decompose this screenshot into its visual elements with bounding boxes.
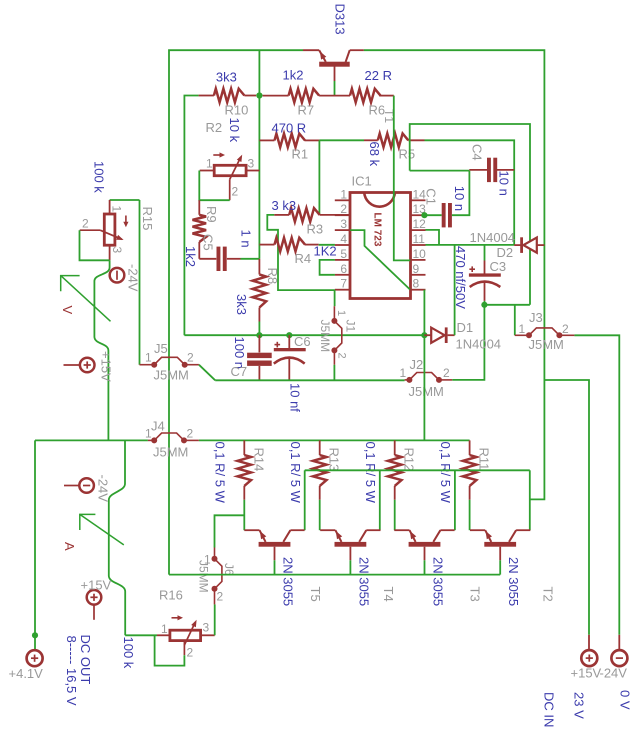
svg-text:J5: J5 (154, 341, 168, 356)
resistor R14 0,1R 5W (243, 440, 245, 455)
svg-text:7: 7 (340, 277, 347, 291)
jumper J4 J5MM (148, 439, 154, 441)
resistor R12 0,1R 5W (394, 440, 396, 455)
svg-text:2: 2 (82, 217, 89, 231)
wire base rail (169, 574, 500, 576)
svg-text:+15V: +15V (99, 351, 114, 382)
wire base T3 (424, 560, 426, 574)
svg-text:A: A (62, 542, 77, 551)
svg-text:23 V: 23 V (572, 692, 587, 719)
resistor R8 3k3 (258, 259, 260, 275)
svg-text:R9: R9 (204, 206, 219, 223)
supply -24V (voltmeter) (110, 268, 125, 283)
svg-text:2: 2 (187, 646, 194, 660)
svg-text:470 R: 470 R (272, 121, 307, 136)
svg-text:0,1 R/ 5 W: 0,1 R/ 5 W (438, 442, 453, 504)
svg-text:R2: R2 (206, 120, 223, 135)
wire J5 pin2 diagonal (199, 365, 215, 381)
svg-text:1k2: 1k2 (283, 68, 304, 83)
svg-text:22 R: 22 R (365, 68, 392, 83)
transistor T3 2N3055 (394, 529, 409, 531)
svg-text:10 nf: 10 nf (288, 383, 303, 412)
svg-text:R5: R5 (399, 147, 416, 162)
wire pin7 to J1 (334, 290, 336, 306)
svg-text:3: 3 (203, 621, 210, 635)
svg-text:T2: T2 (541, 587, 556, 602)
wire pin 11 to D2 (426, 244, 515, 246)
svg-text:2N 3055: 2N 3055 (431, 557, 446, 606)
capacitor C7 100 n (258, 335, 260, 352)
svg-text:T5: T5 (308, 587, 323, 602)
wire collector drop (454, 470, 456, 530)
svg-text:T4: T4 (381, 587, 396, 602)
pin 4 IC1 (335, 244, 350, 246)
svg-text:1: 1 (145, 427, 152, 441)
wire R15 top (110, 199, 140, 201)
pin 7 IC1 (335, 289, 350, 291)
svg-text:-24V: -24V (126, 264, 141, 292)
wire R16 pin2 loop (155, 635, 185, 665)
junction dot pin 13 (421, 212, 427, 218)
svg-text:J5MM: J5MM (318, 320, 332, 353)
svg-text:0,1 R/ 5 W: 0,1 R/ 5 W (213, 442, 228, 504)
svg-text:R3: R3 (307, 222, 324, 237)
supply -24V (ammeter) (64, 485, 79, 487)
svg-text:DC IN: DC IN (542, 692, 557, 727)
pin 10 IC1 (411, 259, 426, 261)
svg-text:LM 723: LM 723 (372, 213, 383, 247)
potentiometer R16 100 k (157, 634, 170, 636)
svg-text:3 k3: 3 k3 (272, 198, 297, 213)
svg-text:6: 6 (340, 262, 347, 276)
svg-text:J5MM: J5MM (529, 337, 564, 352)
wire input net top-left (169, 50, 303, 574)
wire D1 cathode up to pin 11 net (454, 245, 456, 335)
svg-text:2: 2 (187, 427, 194, 441)
svg-text:1: 1 (206, 157, 213, 171)
wire drop to J3 (514, 305, 516, 336)
capacitor C3 470nf polarized (484, 245, 486, 260)
arrow R2 adjust (213, 154, 222, 156)
pin 12 IC1 (411, 229, 426, 231)
resistor R7 1k2 (263, 95, 289, 97)
meter needle V (61, 276, 111, 322)
svg-text:1: 1 (110, 206, 124, 213)
arrow R16 adjust (172, 617, 181, 619)
svg-text:J3: J3 (529, 310, 543, 325)
svg-text:R4: R4 (295, 251, 312, 266)
resistor R10 3k3 (199, 95, 214, 97)
svg-text:D313: D313 (332, 4, 347, 35)
wire C4 upper loop (410, 124, 530, 305)
pin 5 IC1 (335, 259, 350, 261)
svg-text:-24V: -24V (96, 475, 111, 503)
wire output rail right (199, 439, 470, 441)
resistor R9 1k2 (198, 200, 200, 215)
wire D313 base to R7/R6 junction (334, 81, 336, 96)
svg-text:11: 11 (413, 232, 426, 246)
wire R10 left drop to ground rail (184, 96, 198, 336)
svg-text:J2: J2 (410, 357, 424, 372)
junction dot C3 bottom (481, 302, 487, 308)
svg-text:1: 1 (340, 187, 347, 201)
svg-text:J5MM: J5MM (153, 445, 188, 460)
capacitor C4 10 n (469, 169, 487, 171)
svg-text:3: 3 (110, 247, 124, 254)
svg-text:D2: D2 (497, 245, 514, 260)
svg-text:C1: C1 (424, 188, 439, 205)
wire R16 to J6 (214, 604, 216, 635)
svg-text:1: 1 (335, 310, 347, 316)
pin 13 IC1 (411, 214, 426, 216)
svg-text:J5MM: J5MM (154, 368, 189, 383)
svg-text:0,1 R/ 5 W: 0,1 R/ 5 W (288, 442, 303, 504)
junction dot C7 (256, 332, 262, 338)
jumper J3 J5MM (515, 334, 529, 336)
svg-text:+4.1V: +4.1V (9, 666, 44, 681)
svg-text:10: 10 (413, 247, 427, 261)
svg-text:D1: D1 (457, 320, 474, 335)
wire C3 junction row (484, 304, 530, 306)
svg-text:R13: R13 (327, 448, 342, 472)
wire base T5 (274, 560, 276, 574)
capacitor C6 10 nf polarized (288, 335, 290, 348)
wire R15 right to J5 (139, 200, 141, 365)
jumper J2 J5MM (405, 379, 410, 381)
svg-text:8----- 16,5 V: 8----- 16,5 V (64, 636, 79, 706)
meter needle A (80, 514, 124, 545)
wire base T2 (499, 560, 501, 574)
wire R1 right to R5 row (319, 139, 364, 141)
pin 14 IC1 (411, 199, 426, 201)
wire R15 pin2 loop (80, 230, 110, 260)
op-amp regulator IC1 LM723 body (350, 193, 411, 299)
supply +15V (voltmeter) (64, 364, 80, 366)
svg-text:IC1: IC1 (352, 174, 372, 189)
svg-text:R10: R10 (225, 103, 249, 118)
terminal +15V DC IN (588, 635, 590, 651)
wire R5 right to D2 cathode (425, 140, 515, 245)
svg-text:3k3: 3k3 (234, 294, 249, 315)
svg-text:1: 1 (145, 351, 152, 365)
wire voltmeter bubble (94, 260, 109, 440)
wire +V branch to DC IN terminal (544, 380, 589, 635)
svg-text:C4: C4 (470, 144, 485, 161)
wire collector rail (305, 469, 530, 471)
resistor R6 22 R (350, 89, 381, 103)
svg-text:C5: C5 (201, 234, 216, 251)
svg-text:1N4004: 1N4004 (470, 230, 516, 245)
resistor R4 1K2 (259, 244, 274, 246)
svg-text:0,1 R/ 5 W: 0,1 R/ 5 W (363, 442, 378, 504)
svg-text:100 k: 100 k (92, 161, 107, 193)
junction dot C6 (286, 332, 292, 338)
svg-text:5: 5 (340, 247, 347, 261)
svg-text:R11: R11 (477, 448, 492, 471)
arrow R15 adjust (125, 216, 127, 225)
jumper J1 J5MM (333, 306, 335, 321)
svg-text:68 k: 68 k (367, 142, 382, 167)
svg-text:1K2: 1K2 (314, 244, 337, 259)
wire ammeter bubble (109, 440, 125, 635)
diode D1 1N4004 (424, 334, 431, 336)
svg-text:1: 1 (161, 622, 168, 636)
svg-text:C3: C3 (490, 259, 507, 274)
wire collector drop (304, 470, 306, 530)
pin 6 IC1 (335, 274, 350, 276)
svg-text:1: 1 (400, 366, 407, 380)
svg-text:R8: R8 (265, 268, 280, 285)
pin 2 IC1 (335, 214, 350, 216)
transistor T4 2N3055 (320, 529, 335, 531)
wire ammeter to R16 (125, 634, 157, 636)
supply +15V (ammeter) (87, 590, 102, 605)
wire base T4 (349, 560, 351, 574)
transistor T1 D313 (319, 62, 350, 67)
svg-text:-24V: -24V (600, 666, 628, 681)
wire collector net / +V rail to DC IN (364, 50, 545, 499)
diode D2 1N4004 (514, 244, 521, 246)
jumper J5 J5MM (140, 364, 155, 366)
svg-text:J1: J1 (344, 320, 358, 333)
svg-text:+15V: +15V (571, 666, 602, 681)
wire rail C7/C6/D1 (184, 334, 424, 336)
svg-text:1k2: 1k2 (183, 246, 198, 267)
svg-text:470 nf/50V: 470 nf/50V (453, 246, 468, 309)
wire J1 pin2 down (333, 365, 335, 380)
svg-text:8: 8 (413, 277, 420, 291)
wire R11 to emitter (469, 500, 471, 530)
svg-text:2: 2 (443, 366, 450, 380)
svg-text:R1: R1 (292, 147, 309, 162)
wire to +4.1V terminal (34, 440, 36, 650)
wire R1 to IC pin 2 / R3 (318, 140, 320, 215)
pin 11 IC1 (411, 244, 426, 246)
wire input to D313 emitter (303, 49, 319, 51)
svg-text:R7: R7 (298, 103, 315, 118)
capacitor C5 1 n (199, 258, 216, 260)
svg-text:C6: C6 (294, 334, 311, 349)
svg-text:2: 2 (336, 353, 348, 359)
svg-text:C7: C7 (231, 364, 248, 379)
svg-text:4: 4 (340, 232, 347, 246)
svg-text:1: 1 (519, 322, 526, 336)
wire J6 top link (215, 515, 245, 547)
wire R13 to emitter (319, 500, 321, 530)
terminal -24V DC IN (574, 335, 619, 635)
wire output rail left (35, 439, 148, 441)
pin 8 IC1 (411, 289, 426, 291)
svg-text:R14: R14 (251, 448, 266, 472)
svg-text:3k3: 3k3 (216, 70, 237, 85)
svg-text:2: 2 (562, 322, 569, 336)
svg-text:9: 9 (413, 262, 420, 276)
wire C4 left lead net (410, 170, 470, 172)
pin 9 IC1 (411, 274, 426, 276)
svg-text:3: 3 (248, 157, 255, 171)
wire R14 to emitter (243, 500, 245, 530)
resistor R1 470 R (259, 139, 274, 141)
jumper J6 J5MM (214, 589, 216, 605)
potentiometer R2 10 k (200, 170, 215, 172)
junction dot R10/R7 (256, 92, 262, 98)
svg-text:2: 2 (217, 590, 224, 604)
svg-text:0 V: 0 V (618, 690, 633, 710)
wire center vertical node x259 (258, 50, 260, 259)
wire collector drop (529, 470, 531, 530)
transistor T2 2N3055 (470, 529, 485, 531)
wire pin 8 down to D1 and J4 rail (423, 290, 425, 441)
wire R12 to emitter (394, 500, 396, 530)
svg-text:1 n: 1 n (239, 230, 254, 248)
svg-text:1N4004: 1N4004 (456, 337, 502, 352)
svg-text:V: V (60, 306, 75, 315)
pin 1 IC1 (335, 199, 350, 201)
svg-text:+15V: +15V (81, 578, 112, 593)
resistor R3 3 k3 (274, 214, 289, 216)
wire J5 to J2 net (215, 379, 404, 381)
pin 3 IC1 (335, 229, 350, 231)
wire C5 right (241, 258, 260, 260)
svg-text:2N 3055: 2N 3055 (356, 557, 371, 606)
svg-text:10 k: 10 k (227, 118, 242, 143)
svg-text:2N 3055: 2N 3055 (281, 557, 296, 606)
svg-text:2N 3055: 2N 3055 (506, 557, 521, 606)
wire R8 bottom (258, 322, 260, 336)
svg-text:R12: R12 (402, 448, 417, 472)
wire pin5-pin6 link (320, 260, 335, 275)
svg-text:12: 12 (413, 217, 427, 231)
svg-text:R16: R16 (159, 588, 183, 603)
svg-text:2: 2 (232, 185, 239, 199)
terminal +4.1V (34, 649, 36, 652)
svg-text:10 n: 10 n (497, 171, 512, 196)
wire R6 to IC pin 10 (394, 96, 411, 261)
wire R2 pin2 loop (199, 171, 229, 201)
svg-text:3: 3 (340, 217, 347, 231)
capacitor C1 10 n (426, 214, 442, 216)
svg-text:J5MM: J5MM (197, 560, 211, 593)
transistor T5 2N3055 (244, 529, 259, 531)
resistor R13 0,1R 5W (319, 440, 321, 455)
svg-text:100 k: 100 k (121, 637, 136, 669)
svg-text:2: 2 (187, 351, 194, 365)
junction dot D1 (421, 332, 427, 338)
resistor R5 68 k (364, 139, 378, 141)
junction dot +4.1V (32, 632, 38, 638)
svg-text:R15: R15 (140, 207, 155, 231)
svg-text:DC OUT: DC OUT (78, 635, 93, 685)
svg-text:J5MM: J5MM (409, 384, 444, 399)
potentiometer R15 100 k (109, 200, 111, 214)
svg-text:T3: T3 (468, 587, 483, 602)
svg-text:J4: J4 (151, 419, 165, 434)
wire pin 12 jog (426, 230, 440, 245)
wire R4 to pin 4 (319, 244, 335, 246)
svg-text:10 n: 10 n (452, 186, 467, 211)
wire collector drop (379, 470, 381, 530)
wire pin3 to pin8 internal link (350, 230, 410, 289)
resistor R11 0,1R 5W (469, 440, 471, 455)
wire J2 right to C3 minus net (452, 305, 484, 380)
wire C3 bottom (484, 301, 486, 305)
wire R3 left staircase to pin 7 (267, 215, 335, 290)
